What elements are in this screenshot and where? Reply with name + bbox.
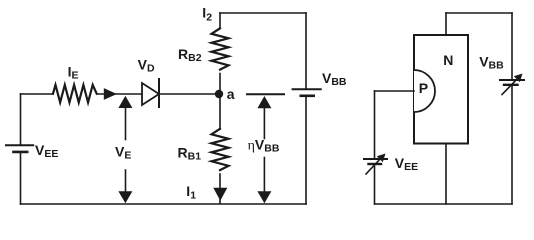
- svg-text:P: P: [419, 80, 428, 96]
- svg-text:VBB: VBB: [322, 70, 347, 88]
- arrowhead IE current direction: [104, 88, 117, 100]
- wire emitter horizontal: [375, 90, 415, 92]
- wire right vertical top (to VBB battery): [305, 13, 307, 88]
- arrow eta-VBB (voltage across RB1): [247, 94, 284, 203]
- battery VBB: [293, 89, 321, 96]
- diode VD triangle: [142, 83, 159, 105]
- diode VD cathode bar: [158, 79, 160, 107]
- wire left vertical (emitter branch) top: [374, 91, 376, 159]
- node a junction dot: [215, 90, 223, 98]
- svg-text:a: a: [227, 86, 235, 102]
- svg-text:N: N: [443, 52, 453, 68]
- svg-text:I1: I1: [186, 183, 196, 202]
- wire left vertical top (VEE + terminal to top-left corner): [20, 94, 22, 144]
- svg-text:VD: VD: [138, 56, 155, 74]
- UJT N-type bar body: [414, 35, 468, 144]
- arrow VE (voltage across emitter to B1): [118, 96, 132, 203]
- svg-text:I2: I2: [202, 4, 212, 23]
- svg-text:VEE: VEE: [35, 142, 58, 160]
- wire base2 vertical (box top to top wire): [445, 13, 447, 35]
- svg-text:IE: IE: [68, 63, 79, 81]
- svg-text:ηVBB: ηVBB: [248, 137, 280, 155]
- wire right vertical bottom (right circuit): [511, 86, 513, 204]
- svg-text:RB2: RB2: [178, 46, 202, 64]
- svg-text:VEE: VEE: [395, 155, 418, 173]
- wire left vertical (emitter branch) bottom: [374, 165, 376, 204]
- wire base1 vertical (box bottom to bottom wire): [445, 144, 447, 205]
- variable source VEE (bars + arrow): [364, 154, 387, 175]
- wire left vertical bottom (VEE - terminal to bottom-left corner): [20, 153, 22, 204]
- wire RB2 top vertical: [219, 13, 221, 29]
- wire bottom horizontal (right circuit): [375, 203, 513, 205]
- resistor RB2 zigzag: [212, 28, 229, 69]
- resistor RB1 zigzag: [212, 129, 229, 170]
- UJT P emitter semicircle: [414, 70, 435, 112]
- wire resistor to diode: [97, 93, 141, 95]
- wire diode to node a: [159, 93, 219, 95]
- wire top-left horizontal (to resistor): [21, 93, 54, 95]
- wire node a to RB1: [219, 94, 221, 129]
- resistor (emitter series) zigzag: [53, 85, 97, 103]
- wire top horizontal (left circuit): [220, 12, 306, 14]
- battery VEE: [6, 145, 33, 152]
- svg-text:RB1: RB1: [178, 145, 202, 163]
- wire RB2 to node a: [219, 74, 221, 95]
- wire RB1 to bottom with I1 arrowhead: [219, 174, 221, 204]
- wire right vertical top (right circuit): [511, 13, 513, 80]
- wire bottom horizontal (left circuit): [21, 203, 307, 205]
- svg-text:VBB: VBB: [479, 54, 504, 72]
- wire top horizontal (right circuit): [446, 12, 512, 14]
- svg-text:VE: VE: [115, 143, 131, 161]
- wire right vertical bottom: [305, 97, 307, 204]
- variable source VBB (bars + arrow): [500, 74, 524, 95]
